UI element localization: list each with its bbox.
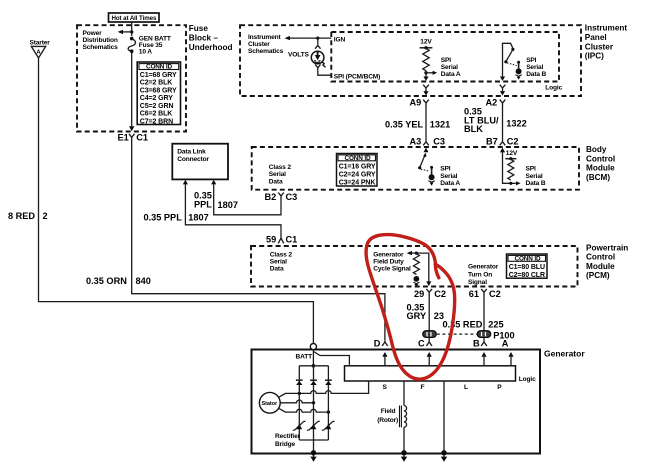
svg-text:Starter: Starter — [30, 40, 51, 47]
svg-text:Instrument: Instrument — [248, 34, 282, 41]
label: 0.35 ORN 840 — [86, 276, 151, 286]
label: Rectifier Bridge — [275, 433, 301, 448]
IPC logic inner dashed box — [331, 32, 559, 82]
connector: Data Link Connector box — [172, 144, 228, 180]
wire: field duty cycle signal with arrow — [411, 253, 429, 281]
svg-text:1322: 1322 — [506, 119, 526, 129]
svg-text:Cluster: Cluster — [585, 42, 614, 51]
wire: splice to B terminal — [483, 338, 485, 341]
connector half (out of gauge) — [315, 64, 320, 70]
svg-text:Powertrain: Powertrain — [586, 243, 628, 252]
wire: BATT into rectifier — [312, 350, 314, 365]
svg-text:Serial: Serial — [441, 64, 458, 71]
label: 0.35 PPL 1807 (BCM leg) — [194, 190, 238, 210]
svg-text:C1=68 GRY: C1=68 GRY — [140, 72, 177, 79]
svg-text:Generator: Generator — [544, 349, 585, 359]
svg-text:SPI: SPI — [526, 166, 536, 173]
svg-text:SPI: SPI — [526, 57, 536, 64]
module U3: Powertrain Control Module dashed box — [251, 246, 578, 287]
connector half (into gauge) — [315, 44, 320, 49]
connector pin 61/C2 — [469, 289, 501, 299]
svg-text:Generator: Generator — [468, 263, 499, 270]
svg-text:C2: C2 — [434, 289, 446, 299]
diode D2 (positive) — [310, 380, 317, 385]
svg-text:L: L — [464, 384, 468, 391]
svg-text:Control: Control — [586, 154, 615, 163]
svg-text:Serial: Serial — [269, 171, 286, 178]
svg-text:A: A — [37, 49, 41, 55]
wire: 0.35 RED 225 (61 to generator B) — [483, 298, 485, 331]
svg-text:Data A: Data A — [441, 71, 461, 78]
connector E1/C1 — [118, 132, 149, 142]
module U1: Instrument Panel Cluster outer dashed box — [240, 25, 581, 96]
splice connector P100 (B leg) — [477, 331, 491, 338]
svg-text:(Rotor): (Rotor) — [377, 417, 398, 424]
svg-text:C7=2 BRN: C7=2 BRN — [140, 119, 173, 126]
arrows: terminal inputs D C B A into logic — [382, 352, 513, 366]
dashed splice tie line P100 — [437, 333, 477, 335]
svg-text:Module: Module — [586, 262, 615, 271]
label: Class 2 Serial Data (BCM) — [269, 164, 292, 185]
svg-text:C6=2 BLK: C6=2 BLK — [140, 111, 173, 118]
module U2: Body Control Module dashed box — [252, 147, 579, 190]
svg-text:Rectifier: Rectifier — [275, 433, 301, 440]
diode D6 (avalanche, negative) — [322, 421, 335, 430]
svg-text:0.35 PPL: 0.35 PPL — [144, 213, 183, 223]
svg-text:(PCM): (PCM) — [586, 271, 610, 280]
label: Instrument Cluster Schematics — [248, 34, 284, 55]
svg-text:Field Duty: Field Duty — [373, 259, 404, 266]
wire: junction down to voltmeter — [317, 38, 319, 44]
label: 0.35 PPL 1807 (PCM leg) — [144, 213, 209, 223]
wire: L terminal to ground — [443, 381, 445, 454]
svg-text:59: 59 — [266, 235, 276, 245]
svg-text:A2: A2 — [486, 98, 498, 108]
label: SPI Serial Data A (IPC) — [441, 57, 461, 78]
supply: 12V with resistor (BCM) — [500, 148, 521, 186]
svg-text:PPL: PPL — [194, 200, 212, 210]
labels: S F L P — [383, 384, 503, 391]
wire: splice to C terminal — [428, 338, 430, 341]
svg-text:12V: 12V — [506, 150, 518, 157]
wire: class 2 serial data BCM to DLC — [214, 185, 281, 215]
wire: stator phase 2 — [280, 400, 313, 403]
diode D3 (positive) — [325, 380, 332, 385]
svg-text:P: P — [497, 384, 502, 391]
svg-text:Generator: Generator — [373, 251, 404, 258]
svg-text:CONN ID: CONN ID — [146, 64, 172, 71]
connector pin A2 — [486, 98, 506, 109]
svg-text:C: C — [418, 339, 425, 349]
svg-text:Body: Body — [586, 145, 607, 154]
diode D5 (avalanche, negative) — [307, 421, 320, 430]
svg-text:B: B — [473, 339, 480, 349]
resistor R (IPC pull-up) — [423, 49, 429, 71]
svg-text:CONN ID: CONN ID — [345, 155, 371, 162]
svg-text:C3=68 GRY: C3=68 GRY — [140, 87, 177, 94]
ground: rectifier center tap — [311, 450, 316, 455]
svg-text:IGN: IGN — [334, 36, 346, 43]
svg-text:Logic: Logic — [545, 84, 562, 91]
svg-text:Power: Power — [83, 30, 103, 37]
node: junction at fuse top — [130, 30, 133, 33]
label: Generator Field Duty Cycle Signal — [373, 251, 411, 272]
wire: starter battery feed 8 RED down left side — [39, 58, 314, 343]
svg-text:C4=2 GRY: C4=2 GRY — [140, 95, 173, 102]
wire: field to ground — [403, 427, 405, 453]
wire: stator phase 1 to S sense — [279, 381, 369, 397]
module: Generator box — [252, 350, 541, 454]
svg-text:D: D — [374, 339, 381, 349]
wire exit arrow at PCM edge — [426, 281, 431, 286]
label: 8 RED 2 — [8, 211, 48, 221]
connector pin A3/C3 — [410, 137, 445, 147]
svg-text:BLK: BLK — [464, 124, 483, 134]
svg-text:A9: A9 — [410, 98, 422, 108]
svg-text:C1=80 BLU: C1=80 BLU — [509, 264, 545, 271]
svg-text:Schematics: Schematics — [248, 48, 284, 55]
svg-text:B2: B2 — [265, 192, 277, 202]
svg-text:C2: C2 — [507, 137, 519, 147]
connector pin B — [473, 339, 487, 349]
svg-text:Data: Data — [269, 178, 283, 185]
CONN ID table (PCM) — [507, 254, 548, 279]
svg-text:Schematics: Schematics — [83, 44, 119, 51]
svg-text:Serial: Serial — [526, 64, 543, 71]
svg-text:S: S — [383, 384, 388, 391]
svg-text:C1=16 GRY: C1=16 GRY — [339, 163, 376, 170]
wire: from hot bus down to fuse — [131, 22, 133, 36]
svg-text:C1: C1 — [286, 235, 298, 245]
connector pin A9 — [410, 98, 429, 109]
wire: 0.35 YEL 1321 (A9 to BCM A3) — [425, 109, 427, 140]
label: Powertrain Control Module (PCM) — [586, 243, 628, 280]
svg-text:(IPC): (IPC) — [585, 52, 604, 61]
svg-text:8 RED: 8 RED — [8, 211, 35, 221]
svg-text:Data Link: Data Link — [177, 148, 206, 155]
label: Generator Turn On Signal — [468, 263, 499, 286]
label: Class 2 Serial Data (PCM) — [270, 251, 293, 272]
svg-text:SPI (PCM/BCM): SPI (PCM/BCM) — [334, 74, 380, 81]
annotation: hand-drawn red circle — [366, 235, 455, 380]
svg-text:Logic: Logic — [519, 376, 536, 383]
label: SPI Serial Data A (BCM) — [440, 166, 460, 187]
ground: field return — [401, 450, 406, 455]
svg-text:12V: 12V — [420, 38, 432, 45]
battery feed symbol: Starter — [30, 40, 51, 59]
svg-text:A: A — [502, 339, 509, 349]
svg-text:840: 840 — [136, 276, 151, 286]
svg-text:GRY: GRY — [407, 311, 427, 321]
svg-text:C2=24 GRY: C2=24 GRY — [339, 172, 376, 179]
svg-text:(BCM): (BCM) — [586, 173, 610, 182]
svg-text:61: 61 — [469, 289, 479, 299]
svg-text:C3: C3 — [286, 192, 298, 202]
svg-text:Field: Field — [381, 408, 396, 415]
resistor R (PCM field driver) — [413, 254, 419, 275]
label: Power Distribution Schematics — [83, 30, 119, 51]
label: Body Control Module (BCM) — [586, 145, 615, 182]
svg-text:C2=2 BLK: C2=2 BLK — [140, 80, 173, 87]
rectifier bridge rails and branches — [299, 366, 328, 454]
svg-text:0.35 RED: 0.35 RED — [443, 320, 483, 330]
label: GEN BATT Fuse 35 10 A — [139, 36, 171, 56]
connector pin 59/C1 — [266, 235, 297, 245]
field winding F (rotor) — [403, 381, 405, 406]
svg-text:Panel: Panel — [585, 33, 607, 42]
svg-text:0.35 YEL: 0.35 YEL — [385, 119, 424, 129]
label: SPI Serial Data B (IPC) — [526, 57, 546, 78]
node: SPI data A junction — [424, 71, 427, 74]
logic bar (generator regulator) — [345, 366, 516, 381]
alternator stator winding — [259, 392, 280, 413]
svg-text:C3=24 PNK: C3=24 PNK — [339, 180, 376, 187]
connector pin 29/C2 — [414, 289, 446, 299]
connector pin C — [418, 339, 432, 349]
label: Fuse Block - Underhood — [189, 24, 233, 52]
meter M1: VOLTS gauge — [311, 51, 325, 67]
switch S2: SPI Serial Data A (BCM) — [418, 148, 435, 186]
svg-text:F: F — [421, 384, 425, 391]
svg-text:A3: A3 — [410, 137, 422, 147]
fuse F35: GEN BATT Fuse 35 10A — [128, 37, 135, 53]
svg-text:SPI: SPI — [441, 57, 451, 64]
Fuse Block - Underhood dashed box — [77, 25, 186, 131]
wire: down to A2 through connectors — [500, 77, 505, 81]
svg-text:Data B: Data B — [526, 71, 546, 78]
svg-text:Cluster: Cluster — [248, 41, 270, 48]
svg-text:225: 225 — [488, 320, 503, 330]
CONN ID table (fuse block) — [137, 62, 180, 126]
svg-text:2: 2 — [43, 211, 48, 221]
CONN ID table (BCM) — [337, 154, 378, 187]
svg-text:Block –: Block – — [189, 34, 219, 43]
svg-text:Data: Data — [270, 266, 284, 273]
svg-text:Serial: Serial — [526, 173, 543, 180]
svg-text:1807: 1807 — [218, 200, 238, 210]
label: SPI Serial Data B (BCM) — [526, 166, 546, 187]
svg-text:Instrument: Instrument — [585, 24, 628, 33]
svg-text:29: 29 — [414, 289, 424, 299]
diode D4 (avalanche, negative) — [293, 421, 306, 430]
wire: down to A9 through connectors — [425, 71, 427, 77]
wire: BATT sense to logic — [314, 352, 350, 365]
svg-text:BATT: BATT — [296, 354, 313, 361]
wire: arrow to power distribution — [122, 31, 132, 33]
svg-text:Serial: Serial — [440, 173, 457, 180]
svg-text:B7: B7 — [486, 137, 498, 147]
label: Field (Rotor) — [377, 408, 398, 424]
svg-text:Module: Module — [586, 164, 615, 173]
svg-text:C3: C3 — [433, 137, 445, 147]
svg-text:1321: 1321 — [430, 119, 450, 129]
label: Instrument Panel Cluster (IPC) — [585, 24, 628, 61]
wire: IGN feed with off-page arrow — [289, 37, 331, 39]
svg-text:E1: E1 — [118, 132, 129, 142]
connector pin D — [374, 339, 388, 349]
connector pin B2/C3 — [265, 192, 298, 202]
wire: 0.35 LT BLU/BLK 1322 (A2 to BCM B7) — [502, 109, 504, 140]
svg-text:0.35 ORN: 0.35 ORN — [86, 276, 127, 286]
wire: 0.35 ORN 840 from fuse to generator D — [132, 141, 385, 340]
wire: fuse output down to E1 — [131, 53, 133, 127]
svg-text:C5=2 GRN: C5=2 GRN — [140, 103, 174, 110]
node: IGN junction — [316, 37, 319, 40]
svg-text:10 A: 10 A — [139, 49, 152, 56]
terminal: BATT stud — [310, 344, 316, 350]
svg-text:Hot at All Times: Hot at All Times — [112, 15, 157, 22]
svg-text:Serial: Serial — [270, 259, 287, 266]
svg-text:Cycle Signal: Cycle Signal — [373, 266, 411, 273]
svg-text:1807: 1807 — [188, 213, 208, 223]
svg-text:Fuse: Fuse — [189, 24, 209, 33]
svg-text:Distribution: Distribution — [83, 37, 118, 44]
svg-text:Data A: Data A — [440, 180, 460, 187]
svg-text:Connector: Connector — [177, 156, 209, 163]
connector pin B7/C2 — [486, 137, 519, 147]
svg-text:VOLTS: VOLTS — [288, 52, 309, 59]
svg-text:CONN ID: CONN ID — [515, 255, 541, 262]
svg-text:C2=80 CLR: C2=80 CLR — [509, 272, 545, 279]
wire: arrow to SPI Serial Data A — [426, 72, 433, 74]
wire: class 2 serial data DLC to PCM 59 — [185, 185, 281, 237]
svg-text:Class 2: Class 2 — [269, 164, 292, 171]
svg-text:Class 2: Class 2 — [270, 251, 293, 258]
svg-text:Stator: Stator — [262, 401, 278, 407]
svg-text:C1: C1 — [136, 132, 148, 142]
svg-text:SPI: SPI — [440, 166, 450, 173]
wire: 0.35 GRY 23 (29 to generator C) — [428, 298, 430, 331]
switch S1: SPI Serial Data B driver (IPC) — [503, 43, 522, 79]
wire: stator phase 3 — [279, 408, 329, 412]
splice connector (C leg) — [423, 331, 437, 338]
svg-text:C2: C2 — [489, 289, 501, 299]
wire: gauge return SPI (PCM/BCM) — [318, 70, 332, 75]
svg-text:Underhood: Underhood — [189, 43, 233, 52]
diode D1 (positive) — [296, 380, 303, 385]
svg-text:Control: Control — [586, 253, 615, 262]
svg-text:Bridge: Bridge — [275, 441, 295, 448]
svg-text:Data B: Data B — [526, 180, 546, 187]
Hot at All Times tag — [109, 13, 160, 22]
svg-text:Signal: Signal — [468, 279, 487, 286]
ground: logic L return — [441, 450, 446, 455]
svg-text:Turn On: Turn On — [468, 271, 492, 278]
